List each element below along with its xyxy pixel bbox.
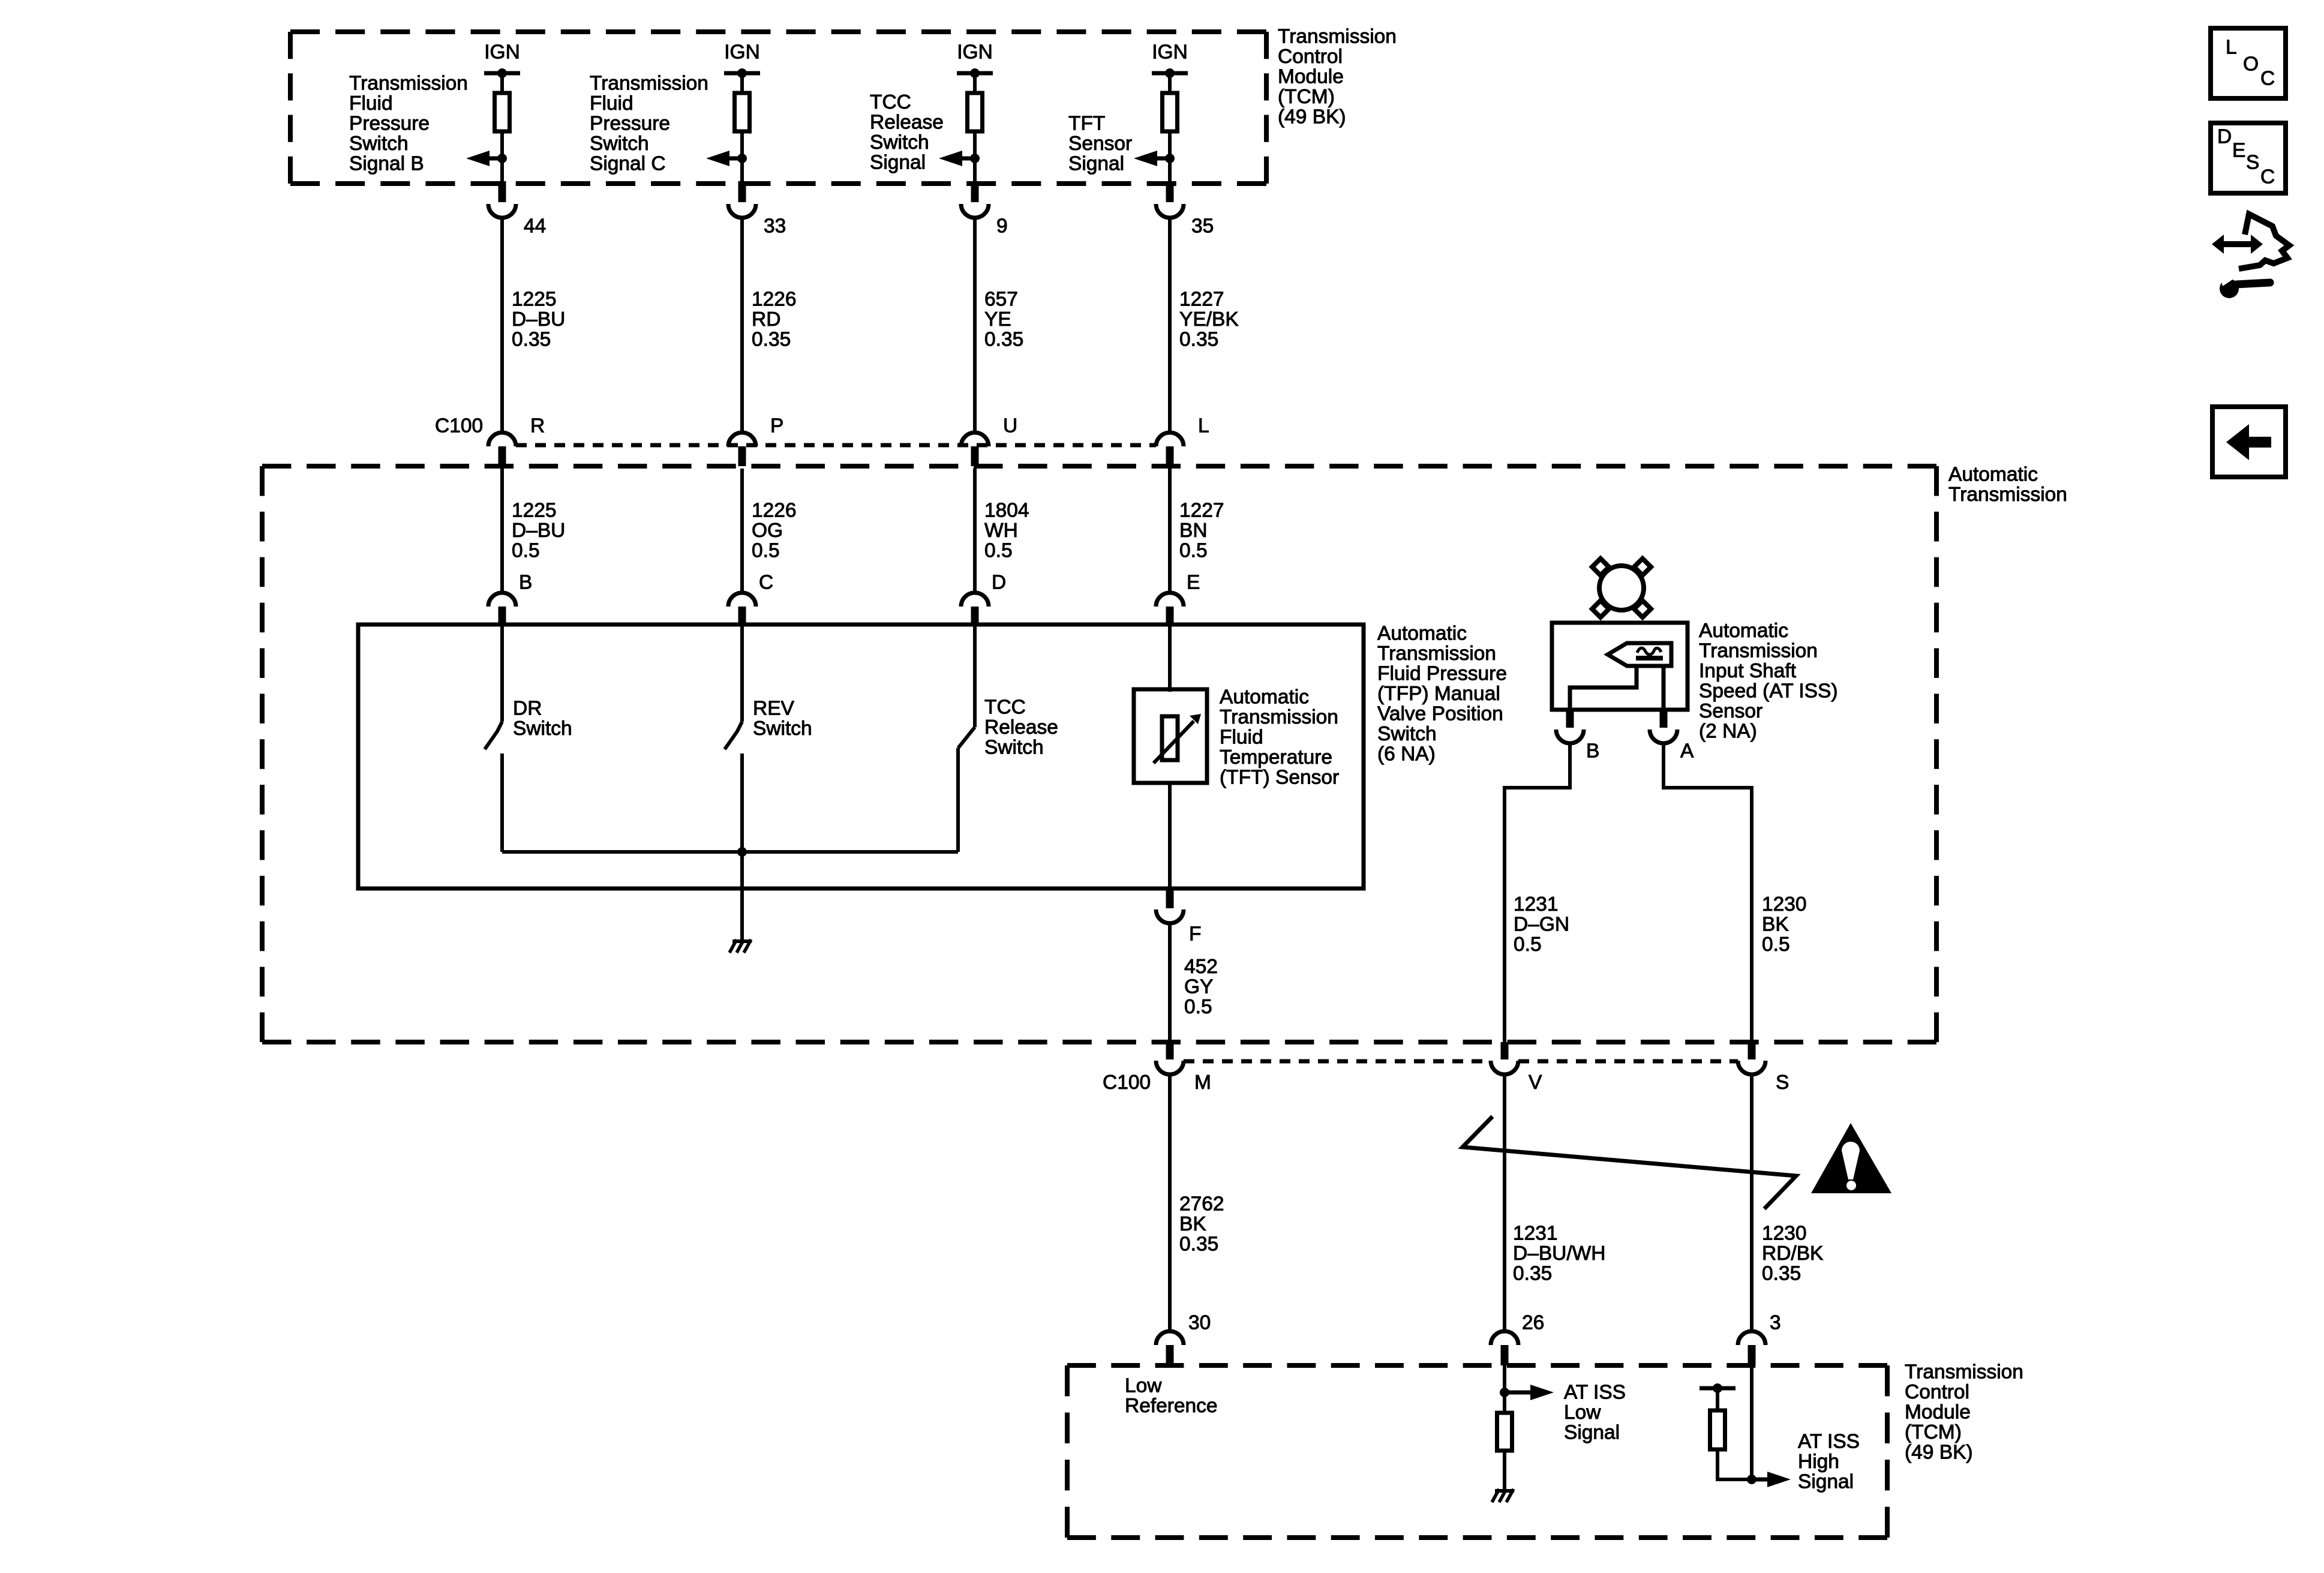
resistor TCM high-side [1710, 1410, 1725, 1449]
svg-text:Transmission: Transmission [1905, 1361, 2023, 1383]
svg-text:E: E [1187, 572, 1200, 594]
svg-text:1230: 1230 [1762, 893, 1807, 915]
connector TFP switch pin E [1156, 572, 1200, 625]
svg-text:Low: Low [1125, 1375, 1162, 1397]
component box: TFP Manual Valve Position Switch [358, 625, 1364, 888]
svg-text:B: B [519, 572, 532, 594]
label: AT ISS Sensor (2 NA) [1699, 620, 1838, 743]
resistor TCM pull-up (TFP switch signal B) [495, 93, 510, 131]
switch TCC release [958, 625, 975, 852]
svg-text:Switch: Switch [984, 737, 1044, 759]
svg-text:U: U [1003, 415, 1017, 437]
svg-text:Switch: Switch [349, 133, 409, 155]
svg-text:(49 BK): (49 BK) [1278, 106, 1346, 128]
svg-text:S: S [1776, 1071, 1789, 1094]
svg-text:C100: C100 [435, 415, 483, 437]
svg-text:Signal: Signal [1068, 153, 1124, 175]
svg-text:BK: BK [1179, 1213, 1206, 1235]
svg-text:Automatic: Automatic [1948, 464, 2038, 486]
wire terminal to resistor (high) [1716, 1388, 1719, 1410]
wire pin 3 to high signal junction [1750, 1365, 1753, 1479]
connector TCM pin 44 [488, 181, 546, 238]
svg-text:Switch: Switch [753, 718, 812, 740]
svg-text:Transmission: Transmission [1278, 26, 1397, 48]
label: internal signal name (TCC release switch signal) [870, 91, 944, 174]
wire 657 YE 0.35 (TCC release switch signal) [975, 218, 1023, 433]
svg-text:YE/BK: YE/BK [1179, 308, 1239, 331]
warning triangle icon [1811, 1123, 1891, 1193]
resistor TCM pull-up (TCC release switch signal) [968, 93, 983, 131]
label: internal signal name (TFT sensor signal) [1068, 113, 1132, 175]
connector C100 pin V [1491, 1042, 1542, 1094]
wire pin 26 to junction [1503, 1365, 1506, 1392]
svg-text:(TCM): (TCM) [1905, 1421, 1962, 1443]
wire junction to resistor (low) [1503, 1392, 1506, 1413]
svg-text:IGN: IGN [724, 41, 760, 64]
svg-text:Pressure: Pressure [349, 113, 430, 135]
connector C100 pin L [1156, 415, 1209, 467]
module box: Transmission Control Module (TCM) top [290, 32, 1266, 184]
wire C100 connector bus (dotted, lower) [1184, 1059, 1738, 1064]
wire switch common bus [502, 850, 958, 854]
connector C100 pin M [1156, 1042, 1211, 1094]
wire AT ISS internal pin B [1570, 666, 1637, 710]
node internal terminal bar (high branch) [1700, 1383, 1736, 1393]
svg-text:IGN: IGN [957, 41, 993, 64]
svg-text:BN: BN [1179, 520, 1208, 542]
wire 2762 BK 0.35 [1170, 1074, 1224, 1331]
svg-text:1225: 1225 [512, 500, 557, 522]
svg-text:1226: 1226 [752, 289, 797, 311]
svg-text:Signal: Signal [1798, 1471, 1854, 1493]
wire 1231 D-GN 0.5 [1505, 743, 1570, 1042]
wire junction to TCM case (TFP switch signal B) [500, 158, 504, 184]
resistor TCM pull-up (TFT sensor signal) [1163, 93, 1178, 131]
svg-text:M: M [1194, 1071, 1211, 1094]
svg-text:(49 BK): (49 BK) [1905, 1442, 1973, 1464]
svg-text:IGN: IGN [484, 41, 520, 64]
wire REV switch to ground [740, 852, 744, 940]
connector TFP switch pin F [1156, 888, 1201, 945]
svg-text:0.35: 0.35 [1179, 1233, 1218, 1256]
node AT ISS high signal junction w/ arrow [1747, 1472, 1791, 1487]
svg-text:L: L [1198, 415, 1209, 437]
wire 1804 WH 0.5 (TCC release switch signal) [975, 469, 1029, 593]
wire C100 connector bus (dotted, upper) [516, 443, 1156, 448]
svg-text:E: E [2232, 140, 2245, 162]
wire junction to TCM case (TFP switch signal C) [740, 158, 744, 184]
svg-text:657: 657 [984, 289, 1018, 311]
svg-text:IGN: IGN [1152, 41, 1188, 64]
wire 452 GY 0.5 [1170, 923, 1218, 1042]
wire TFT sensor to pin F [1168, 783, 1172, 888]
module box: Automatic Transmission [262, 466, 1936, 1042]
power node IGN (TFP switch signal C) [724, 41, 760, 79]
svg-text:3: 3 [1770, 1312, 1781, 1334]
svg-text:P: P [770, 415, 783, 437]
off-page interrupt zigzag [1463, 1116, 1796, 1209]
wire 1226 OG 0.5 (TFP switch signal C) [742, 469, 797, 593]
svg-text:Release: Release [984, 716, 1058, 739]
svg-text:AT ISS: AT ISS [1798, 1431, 1860, 1453]
label: TCM (top) [1278, 26, 1397, 128]
svg-text:9: 9 [996, 215, 1008, 238]
svg-text:1230: 1230 [1762, 1223, 1807, 1245]
svg-text:D–BU: D–BU [512, 308, 565, 331]
svg-text:Signal B: Signal B [349, 153, 424, 175]
component box: AT ISS sensor [1552, 623, 1688, 710]
connector TCM pin 30 [1156, 1312, 1211, 1366]
wire junction to TCM case (TFT sensor signal) [1168, 158, 1172, 184]
label: internal signal name (TFP switch signal C) [590, 73, 708, 175]
svg-text:Low: Low [1564, 1401, 1601, 1424]
svg-text:0.5: 0.5 [1514, 933, 1542, 956]
svg-text:Transmission: Transmission [1948, 484, 2067, 506]
sensor pickup symbol (AT ISS) [1608, 643, 1671, 666]
svg-text:Temperature: Temperature [1220, 746, 1332, 769]
svg-text:REV: REV [753, 698, 795, 720]
resistor variable (TFT thermistor) [1154, 714, 1201, 763]
svg-text:High: High [1798, 1451, 1839, 1473]
wire 1225 D–BU 0.35 (TFP switch signal B) [502, 218, 565, 433]
svg-text:0.35: 0.35 [752, 329, 791, 351]
svg-text:(2 NA): (2 NA) [1699, 721, 1757, 743]
svg-text:TFT: TFT [1068, 113, 1105, 135]
label: connector C100 (lower) [1103, 1071, 1151, 1094]
svg-text:C: C [2260, 166, 2275, 188]
svg-text:Signal: Signal [870, 152, 926, 174]
wire IGN to resistor (TFT sensor signal) [1168, 73, 1172, 93]
svg-text:Fluid: Fluid [349, 92, 393, 115]
ground (TFP switch) [729, 939, 752, 953]
svg-text:0.35: 0.35 [1513, 1263, 1552, 1285]
svg-text:Sensor: Sensor [1068, 133, 1132, 155]
svg-text:30: 30 [1188, 1312, 1211, 1334]
node junction w/ internal signal arrow (TCC release switch signal) [939, 151, 980, 166]
svg-text:(6 NA): (6 NA) [1377, 743, 1436, 766]
svg-text:(TFP) Manual: (TFP) Manual [1377, 683, 1500, 705]
connector C100 pin P [728, 415, 783, 467]
svg-text:Module: Module [1905, 1401, 1971, 1424]
svg-text:0.5: 0.5 [1184, 996, 1212, 1018]
switch DR [485, 625, 502, 852]
label: AT ISS High Signal [1798, 1431, 1860, 1493]
icon swap-part (double arrow + wrench) [2212, 214, 2289, 298]
svg-text:D: D [2217, 126, 2232, 148]
svg-text:TCC: TCC [870, 91, 911, 113]
svg-text:Control: Control [1278, 46, 1343, 68]
svg-text:1225: 1225 [512, 289, 557, 311]
svg-text:S: S [2246, 152, 2259, 174]
svg-text:D–BU/WH: D–BU/WH [1513, 1242, 1605, 1265]
wire AT ISS internal pin A [1662, 666, 1666, 710]
power node IGN (TCC release switch signal) [957, 41, 993, 79]
wire 1225 D–BU 0.5 (TFP switch signal B) [502, 469, 565, 593]
node junction w/ internal signal arrow (TFT sensor signal) [1134, 151, 1175, 166]
label: REV Switch [753, 698, 812, 740]
connector TFP switch pin B [488, 572, 532, 625]
label: TCC Release Switch [984, 697, 1058, 759]
svg-text:Switch: Switch [590, 133, 649, 155]
svg-text:1226: 1226 [752, 500, 797, 522]
connector C100 pin U [961, 415, 1017, 467]
svg-text:Switch: Switch [1377, 723, 1437, 745]
node junction w/ internal signal arrow (TFP switch signal B) [466, 151, 507, 166]
power node IGN (TFT sensor signal) [1152, 41, 1188, 79]
svg-text:YE: YE [984, 308, 1011, 331]
svg-text:2762: 2762 [1179, 1193, 1224, 1215]
connector AT ISS pin A [1650, 710, 1694, 763]
label: AT ISS Low Signal [1564, 1382, 1626, 1444]
svg-text:Speed (AT ISS): Speed (AT ISS) [1699, 680, 1838, 703]
svg-text:A: A [1680, 740, 1694, 763]
svg-text:Valve Position: Valve Position [1377, 703, 1503, 725]
svg-text:GY: GY [1184, 976, 1213, 998]
label: Low Reference [1125, 1375, 1218, 1418]
label: TFT Sensor [1220, 686, 1339, 789]
svg-text:Transmission: Transmission [349, 73, 468, 95]
svg-text:1231: 1231 [1513, 1223, 1558, 1245]
wire IGN to resistor (TFP switch signal B) [500, 73, 504, 93]
svg-text:0.5: 0.5 [984, 540, 1013, 562]
svg-text:RD/BK: RD/BK [1762, 1242, 1823, 1265]
wire 1226 RD 0.35 (TFP switch signal C) [742, 218, 797, 433]
label: internal signal name (TFP switch signal B) [349, 73, 468, 175]
svg-text:Automatic: Automatic [1377, 623, 1467, 645]
svg-text:B: B [1586, 740, 1599, 763]
svg-text:RD: RD [752, 308, 780, 331]
svg-text:0.5: 0.5 [752, 540, 780, 562]
svg-text:Transmission: Transmission [1699, 640, 1818, 662]
svg-text:BK: BK [1762, 914, 1789, 936]
svg-text:0.5: 0.5 [1762, 933, 1790, 956]
switch REV [725, 625, 742, 852]
svg-text:D–BU: D–BU [512, 520, 565, 542]
svg-text:Automatic: Automatic [1699, 620, 1788, 642]
svg-text:Switch: Switch [513, 718, 572, 740]
svg-text:0.5: 0.5 [1179, 540, 1208, 562]
wire 1227 BN 0.5 (TFT sensor signal) [1170, 469, 1224, 593]
label: TCM (bottom) [1905, 1361, 2023, 1464]
svg-text:C100: C100 [1103, 1071, 1151, 1094]
icon gear (AT ISS sensor) [1592, 559, 1651, 617]
svg-text:26: 26 [1522, 1312, 1544, 1334]
svg-text:1227: 1227 [1179, 289, 1224, 311]
svg-text:F: F [1189, 923, 1201, 945]
connector TFP switch pin D [961, 572, 1006, 625]
svg-text:Release: Release [870, 112, 944, 134]
connector TCM pin 26 [1491, 1312, 1544, 1366]
connector C100 pin S [1738, 1042, 1789, 1094]
ground (TCM internal) [1492, 1489, 1514, 1502]
svg-text:Transmission: Transmission [590, 73, 708, 95]
svg-text:TCC: TCC [984, 697, 1026, 719]
component box: TFT sensor [1134, 625, 1207, 783]
svg-text:35: 35 [1191, 215, 1214, 238]
svg-text:Fluid: Fluid [1220, 727, 1263, 749]
wire IGN to resistor (TCC release switch signal) [973, 73, 977, 93]
label: Automatic Transmission [1948, 464, 2067, 506]
node switch bus junction [737, 847, 747, 857]
svg-text:Fluid: Fluid [590, 92, 633, 115]
svg-text:Module: Module [1278, 66, 1344, 88]
svg-text:L: L [2226, 37, 2237, 59]
wire 1230 RD/BK 0.35 [1752, 1074, 1823, 1331]
svg-text:0.5: 0.5 [512, 540, 540, 562]
svg-text:0.35: 0.35 [512, 329, 551, 351]
svg-text:D: D [992, 572, 1006, 594]
svg-text:Transmission: Transmission [1220, 706, 1338, 728]
resistor TCM low-side [1497, 1413, 1512, 1451]
wire 1231 D-BU/WH 0.35 [1505, 1074, 1605, 1331]
svg-text:Reference: Reference [1125, 1395, 1218, 1417]
wire 1230 BK 0.5 [1664, 743, 1807, 1042]
svg-text:WH: WH [984, 520, 1018, 542]
svg-text:Signal C: Signal C [590, 153, 666, 175]
wire resistor to high junction [1718, 1449, 1752, 1479]
svg-text:R: R [530, 415, 545, 437]
wire resistor to junction (TCC release switch signal) [973, 131, 977, 158]
svg-text:Transmission: Transmission [1377, 643, 1496, 665]
connector TCM pin 3 [1738, 1312, 1781, 1366]
svg-text:D–GN: D–GN [1514, 914, 1569, 936]
label: DR Switch [513, 698, 572, 740]
svg-text:(TFT) Sensor: (TFT) Sensor [1220, 767, 1339, 789]
power node IGN (TFP switch signal B) [484, 41, 520, 79]
wire resistor to junction (TFP switch signal C) [740, 131, 744, 158]
svg-text:Automatic: Automatic [1220, 686, 1309, 709]
label: TFP Manual Valve Position Switch (6 NA) [1377, 623, 1507, 766]
svg-text:Switch: Switch [870, 131, 929, 154]
svg-text:Input Shaft: Input Shaft [1699, 660, 1797, 682]
icon DESC button [2211, 123, 2286, 193]
svg-text:1804: 1804 [984, 500, 1029, 522]
icon back-arrow button [2212, 407, 2286, 477]
svg-text:44: 44 [524, 215, 546, 238]
svg-text:(TCM): (TCM) [1278, 86, 1335, 108]
resistor TCM pull-up (TFP switch signal C) [735, 93, 750, 131]
svg-text:1227: 1227 [1179, 500, 1224, 522]
svg-text:Sensor: Sensor [1699, 700, 1762, 722]
svg-text:C: C [759, 572, 773, 594]
svg-text:V: V [1529, 1071, 1542, 1094]
wire IGN to resistor (TFP switch signal C) [740, 73, 744, 93]
wire junction to TCM case (TCC release switch signal) [973, 158, 977, 184]
connector TCM pin 35 [1156, 181, 1214, 238]
svg-text:Signal: Signal [1564, 1422, 1620, 1444]
svg-text:1231: 1231 [1514, 893, 1559, 915]
svg-text:0.35: 0.35 [1179, 329, 1218, 351]
svg-text:452: 452 [1184, 956, 1218, 978]
svg-text:O: O [2243, 53, 2259, 76]
connector TFP switch pin C [728, 572, 773, 625]
svg-text:AT ISS: AT ISS [1564, 1382, 1626, 1404]
svg-text:Pressure: Pressure [590, 113, 670, 135]
node AT ISS low signal junction w/ arrow [1500, 1385, 1554, 1400]
svg-text:DR: DR [513, 698, 542, 720]
wire 1227 YE/BK 0.35 (TFT sensor signal) [1170, 218, 1239, 433]
svg-text:Control: Control [1905, 1381, 1969, 1403]
svg-text:0.35: 0.35 [1762, 1263, 1801, 1285]
svg-text:OG: OG [752, 520, 783, 542]
svg-text:Fluid Pressure: Fluid Pressure [1377, 663, 1507, 685]
node junction w/ internal signal arrow (TFP switch signal C) [706, 151, 747, 166]
connector TCM pin 9 [961, 181, 1008, 238]
wire resistor to junction (TFP switch signal B) [500, 131, 504, 158]
wire resistor to ground [1503, 1451, 1506, 1489]
module box: Transmission Control Module (TCM) bottom [1067, 1365, 1887, 1538]
connector AT ISS pin B [1556, 710, 1599, 763]
label: connector C100 (upper) [435, 415, 483, 437]
connector C100 pin R [488, 415, 545, 467]
svg-text:C: C [2260, 68, 2275, 90]
icon LOC button [2211, 28, 2286, 98]
svg-text:0.35: 0.35 [984, 329, 1023, 351]
svg-text:33: 33 [764, 215, 786, 238]
wire resistor to junction (TFT sensor signal) [1168, 131, 1172, 158]
connector TCM pin 33 [728, 181, 786, 238]
